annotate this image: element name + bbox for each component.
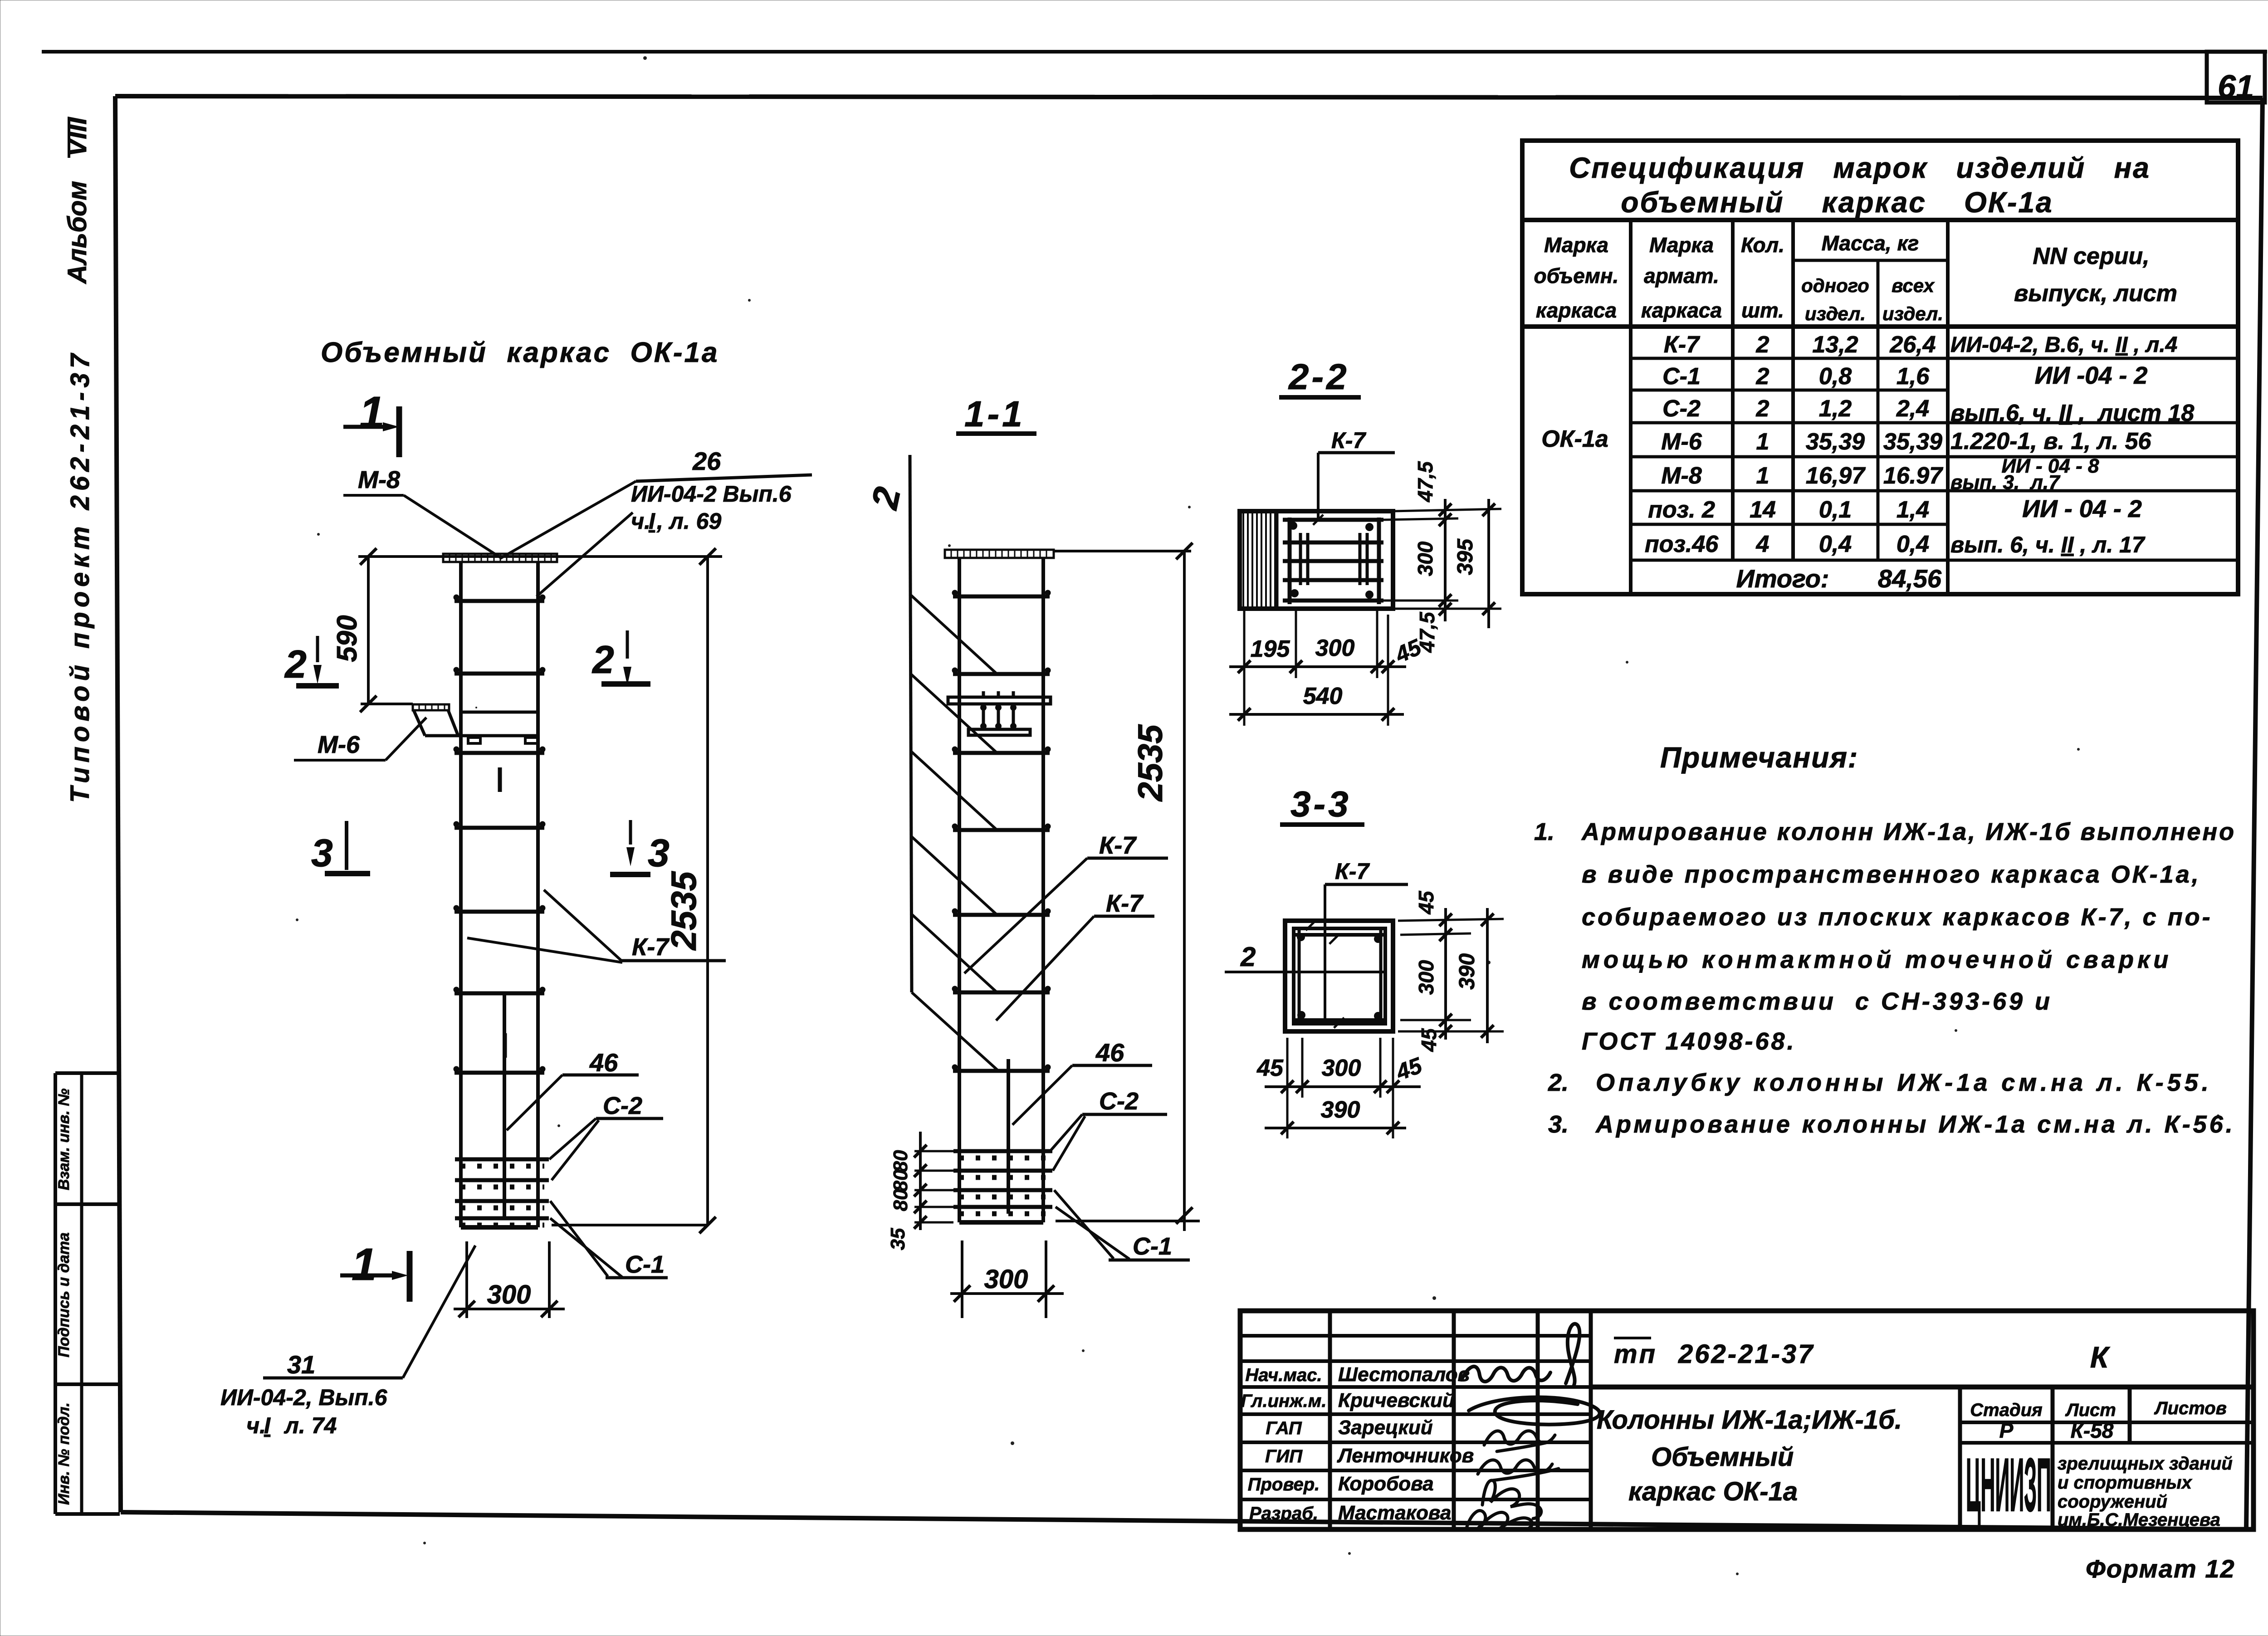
svg-text:М-8: М-8: [1661, 463, 1702, 489]
svg-text:и спортивных: и спортивных: [2058, 1473, 2193, 1493]
svg-text:2: 2: [1756, 396, 1769, 422]
svg-text:Листов: Листов: [2154, 1398, 2227, 1418]
svg-text:К-7: К-7: [1106, 890, 1144, 917]
svg-text:1,6: 1,6: [1897, 363, 1930, 390]
svg-text:С-2: С-2: [603, 1092, 642, 1119]
svg-text:31: 31: [287, 1350, 315, 1379]
svg-text:собираемого из плоских каркасо: собираемого из плоских каркасов К-7, с п…: [1582, 903, 2213, 931]
svg-text:395: 395: [1453, 538, 1477, 575]
svg-text:в соответствии с СН-393-69 и: в соответствии с СН-393-69 и: [1582, 988, 2053, 1015]
svg-text:, л. 69: , л. 69: [656, 508, 721, 534]
svg-text:каркаса: каркаса: [1536, 298, 1617, 322]
svg-text:300: 300: [1413, 541, 1437, 576]
svg-text:ОК-1а: ОК-1а: [1541, 426, 1608, 452]
svg-text:2: 2: [284, 643, 307, 686]
svg-text:2: 2: [591, 638, 614, 682]
svg-text:2535: 2535: [664, 871, 704, 951]
svg-text:Шестопалов: Шестопалов: [1338, 1363, 1470, 1386]
svg-text:мощью контактной точечной свар: мощью контактной точечной сварки: [1582, 946, 2172, 973]
svg-text:объемный каркас ОК-1а: объемный каркас ОК-1а: [1621, 186, 2053, 219]
svg-text:К-7: К-7: [1335, 859, 1370, 884]
svg-text:300: 300: [984, 1265, 1028, 1294]
svg-text:Армирование колонн ИЖ-1а, ИЖ-1: Армирование колонн ИЖ-1а, ИЖ-1б выполнен…: [1581, 818, 2236, 845]
svg-text:поз.46: поз.46: [1645, 531, 1719, 557]
svg-text:поз. 2: поз. 2: [1648, 497, 1715, 523]
svg-text:2: 2: [864, 483, 909, 513]
svg-text:2-2: 2-2: [1288, 357, 1349, 397]
svg-text:ГОСТ 14098-68.: ГОСТ 14098-68.: [1582, 1028, 1796, 1055]
svg-text:1: 1: [1756, 463, 1769, 489]
svg-text:300: 300: [1414, 960, 1438, 995]
svg-text:Формат 12: Формат 12: [2086, 1554, 2235, 1583]
svg-text:390: 390: [1321, 1097, 1360, 1123]
svg-text:ГИП: ГИП: [1265, 1446, 1303, 1466]
svg-text:26,4: 26,4: [1889, 332, 1936, 358]
svg-text:шт.: шт.: [1741, 298, 1784, 322]
svg-text:14: 14: [1750, 497, 1776, 523]
svg-text:им.Б.С.Мезенцева: им.Б.С.Мезенцева: [2058, 1510, 2220, 1530]
svg-text:Объемный: Объемный: [1651, 1442, 1794, 1472]
svg-text:С-2: С-2: [1662, 396, 1701, 422]
svg-text:ч.: ч.: [246, 1413, 266, 1438]
svg-text:1.220-1, в. 1, л. 56: 1.220-1, в. 1, л. 56: [1950, 428, 2152, 454]
svg-text:45: 45: [1256, 1055, 1284, 1081]
svg-text:300: 300: [1322, 1055, 1361, 1081]
svg-text:3: 3: [311, 831, 333, 875]
svg-text:35,39: 35,39: [1806, 429, 1865, 455]
svg-text:262-21-37: 262-21-37: [1678, 1339, 1814, 1369]
svg-text:2,4: 2,4: [1896, 396, 1929, 422]
svg-text:2: 2: [1756, 332, 1769, 358]
svg-text:300: 300: [487, 1280, 531, 1309]
svg-text:Армирование колонны ИЖ-1а см.н: Армирование колонны ИЖ-1а см.на л. К-56.: [1595, 1111, 2235, 1138]
svg-text:3: 3: [648, 831, 670, 875]
svg-text:16,97: 16,97: [1806, 463, 1866, 489]
svg-text:I: I: [264, 1413, 271, 1438]
svg-text:1: 1: [1756, 429, 1769, 455]
svg-text:вып. 3, л.7: вып. 3, л.7: [1950, 471, 2061, 493]
svg-text:К-58: К-58: [2071, 1419, 2114, 1442]
svg-text:К-7: К-7: [1331, 428, 1366, 453]
svg-text:Объемный каркас ОК-1а: Объемный каркас ОК-1а: [321, 337, 719, 368]
svg-text:сооружений: сооружений: [2058, 1492, 2167, 1512]
svg-text:1: 1: [352, 1239, 377, 1290]
svg-text:47,5: 47,5: [1413, 461, 1437, 503]
svg-text:Р: Р: [1999, 1419, 2014, 1442]
svg-text:35,39: 35,39: [1883, 429, 1942, 455]
svg-text:Альбом: Альбом: [63, 181, 92, 285]
svg-text:45: 45: [1414, 890, 1438, 915]
svg-text:Взам. инв. №: Взам. инв. №: [55, 1089, 73, 1191]
svg-text:1-1: 1-1: [964, 394, 1025, 434]
svg-text:Провер.: Провер.: [1248, 1475, 1320, 1494]
svg-text:ИИ-04-2 Вып.6: ИИ-04-2 Вып.6: [631, 481, 792, 507]
svg-text:издел.: издел.: [1805, 303, 1866, 324]
svg-text:л. 74: л. 74: [272, 1413, 337, 1438]
svg-text:I: I: [649, 508, 655, 534]
svg-text:16.97: 16.97: [1883, 463, 1943, 489]
svg-text:Типовой проект 262-21-37: Типовой проект 262-21-37: [65, 349, 95, 803]
svg-text:4: 4: [1756, 531, 1769, 557]
svg-text:0,8: 0,8: [1819, 363, 1852, 390]
svg-text:ИИ-04-2, В.6, ч. II , л.4: ИИ-04-2, В.6, ч. II , л.4: [1950, 333, 2177, 357]
svg-text:ИИ -04 - 2: ИИ -04 - 2: [2035, 362, 2148, 389]
svg-text:Ленточников: Ленточников: [1337, 1445, 1474, 1467]
svg-text:Марка: Марка: [1649, 233, 1714, 257]
svg-text:84,56: 84,56: [1878, 564, 1942, 593]
svg-text:1.: 1.: [1534, 818, 1554, 845]
svg-text:армат.: армат.: [1644, 264, 1719, 288]
svg-text:Мастакова: Мастакова: [1338, 1502, 1451, 1524]
svg-text:80: 80: [890, 1169, 912, 1192]
svg-text:Кричевский: Кричевский: [1338, 1389, 1455, 1411]
svg-text:объемн.: объемн.: [1534, 264, 1619, 288]
svg-text:1: 1: [359, 387, 385, 438]
svg-text:195: 195: [1251, 636, 1290, 662]
svg-text:1,2: 1,2: [1819, 396, 1852, 422]
svg-text:С-1: С-1: [1662, 363, 1701, 390]
svg-text:3.: 3.: [1548, 1111, 1569, 1138]
svg-text:2535: 2535: [1131, 724, 1170, 802]
svg-text:Примечания:: Примечания:: [1660, 741, 1858, 774]
svg-text:300: 300: [1315, 635, 1355, 661]
svg-text:Лист: Лист: [2065, 1400, 2116, 1420]
svg-text:13,2: 13,2: [1812, 332, 1858, 358]
svg-text:выпуск, лист: выпуск, лист: [2014, 280, 2177, 307]
svg-text:Марка: Марка: [1544, 233, 1608, 257]
svg-text:тп: тп: [1614, 1339, 1657, 1369]
svg-text:Стадия: Стадия: [1970, 1400, 2042, 1420]
svg-text:Масса, кг: Масса, кг: [1822, 231, 1919, 255]
svg-text:зрелищных зданий: зрелищных зданий: [2058, 1454, 2233, 1474]
svg-text:2: 2: [1240, 942, 1256, 972]
svg-text:К-7: К-7: [1099, 832, 1137, 859]
svg-text:Нач.мас.: Нач.мас.: [1245, 1365, 1322, 1385]
svg-text:35: 35: [887, 1228, 909, 1250]
svg-text:каркаса: каркаса: [1641, 298, 1722, 322]
svg-text:Спецификация марок изделий: Спецификация марок изделий на: [1569, 151, 2151, 184]
svg-text:ГАП: ГАП: [1266, 1418, 1302, 1438]
svg-text:Коробова: Коробова: [1338, 1473, 1434, 1495]
svg-text:К-7: К-7: [1664, 332, 1700, 358]
svg-text:0,1: 0,1: [1819, 497, 1852, 523]
svg-text:Зарецкий: Зарецкий: [1338, 1416, 1433, 1439]
svg-text:всех: всех: [1892, 275, 1935, 296]
svg-text:М-6: М-6: [318, 731, 360, 758]
svg-text:3-3: 3-3: [1290, 784, 1351, 824]
svg-text:С-2: С-2: [1099, 1088, 1139, 1115]
svg-text:Итого:: Итого:: [1736, 564, 1829, 593]
svg-text:Разраб.: Разраб.: [1249, 1504, 1318, 1524]
svg-text:Колонны ИЖ-1а;ИЖ-1б.: Колонны ИЖ-1а;ИЖ-1б.: [1597, 1405, 1902, 1435]
svg-text:Кол.: Кол.: [1741, 233, 1784, 257]
svg-text:NN серии,: NN серии,: [2033, 243, 2149, 269]
svg-text:издел.: издел.: [1882, 303, 1943, 324]
svg-text:одного: одного: [1801, 275, 1869, 296]
svg-text:М-8: М-8: [358, 466, 400, 493]
svg-text:590: 590: [332, 615, 363, 662]
svg-text:26: 26: [692, 447, 721, 475]
svg-text:ч.: ч.: [631, 508, 650, 534]
svg-text:2: 2: [1756, 363, 1769, 390]
svg-text:каркас ОК-1а: каркас ОК-1а: [1628, 1477, 1798, 1506]
svg-text:С-1: С-1: [1133, 1233, 1172, 1260]
svg-text:Опалубку колонны ИЖ-1а см.на л: Опалубку колонны ИЖ-1а см.на л. К-55.: [1596, 1069, 2212, 1096]
svg-text:80: 80: [890, 1189, 912, 1211]
svg-text:С-1: С-1: [625, 1251, 665, 1278]
svg-text:2.: 2.: [1548, 1069, 1569, 1096]
svg-text:1,4: 1,4: [1897, 497, 1929, 523]
svg-text:ИИ - 04 - 2: ИИ - 04 - 2: [2022, 495, 2142, 523]
svg-text:ИИ-04-2, Вып.6: ИИ-04-2, Вып.6: [220, 1385, 388, 1410]
svg-text:46: 46: [589, 1048, 618, 1077]
svg-text:Подпись и дата: Подпись и дата: [55, 1232, 73, 1358]
svg-text:46: 46: [1095, 1038, 1124, 1067]
svg-text:М-6: М-6: [1661, 429, 1702, 455]
svg-text:К: К: [2090, 1340, 2111, 1374]
svg-text:0,4: 0,4: [1897, 531, 1929, 557]
svg-text:45: 45: [1417, 1028, 1441, 1052]
svg-text:Инв. № подл.: Инв. № подл.: [55, 1402, 73, 1505]
svg-text:ЦНИИЗП: ЦНИИЗП: [1966, 1443, 2051, 1527]
svg-text:VIII: VIII: [63, 117, 92, 157]
svg-text:390: 390: [1455, 953, 1479, 990]
svg-text:540: 540: [1303, 683, 1343, 709]
svg-text:Гл.инж.м.: Гл.инж.м.: [1241, 1391, 1327, 1411]
svg-text:0,4: 0,4: [1819, 531, 1852, 557]
svg-text:80: 80: [890, 1150, 912, 1172]
svg-text:вып. 6, ч. II , л. 17: вып. 6, ч. II , л. 17: [1950, 532, 2146, 557]
svg-text:вып.6, ч. II , лист 18: вып.6, ч. II , лист 18: [1950, 400, 2194, 426]
svg-text:в виде пространственного карка: в виде пространственного каркаса ОК-1а,: [1582, 861, 2201, 888]
